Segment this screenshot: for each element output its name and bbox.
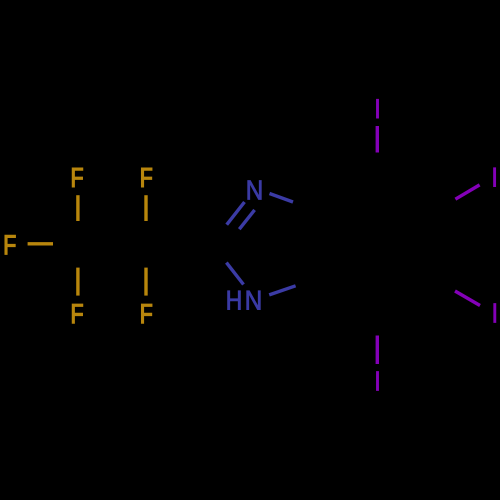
atom I5 label bbox=[494, 168, 496, 187]
atom F5 label bbox=[142, 304, 152, 323]
wire N1=C2 double bond inner line N half bbox=[239, 210, 254, 229]
atom N1 label bbox=[248, 181, 262, 200]
wire F1-C bond half bbox=[28, 242, 53, 245]
wire C6-I bond half bbox=[455, 291, 480, 306]
wire C7-I bond half bbox=[376, 336, 379, 365]
wire C5-I bond half bbox=[455, 185, 479, 199]
atom F2 label bbox=[72, 168, 82, 187]
wire F5-C bond half bbox=[144, 268, 147, 296]
atom I4 label bbox=[376, 99, 378, 118]
wire F2-C bond half bbox=[76, 195, 79, 221]
wire F4-C bond half bbox=[76, 268, 79, 296]
atom I7 label bbox=[376, 372, 378, 391]
atom N3 label N bbox=[247, 291, 261, 310]
atom F4 label bbox=[72, 304, 82, 323]
wire N1-C3a bond half bbox=[270, 194, 294, 203]
atom F3 label bbox=[142, 168, 152, 187]
wire C2-N3 bond half bbox=[226, 263, 243, 285]
atom F1 label bbox=[5, 235, 15, 254]
wire N1=C2 double bond main line N half bbox=[227, 202, 245, 225]
atom I6 label bbox=[494, 304, 496, 323]
wire F3-C bond half bbox=[144, 195, 147, 221]
atom N3 label H bbox=[228, 291, 241, 310]
wire N3-C7a bond half bbox=[269, 286, 295, 295]
wire C4-I bond half bbox=[376, 126, 379, 153]
